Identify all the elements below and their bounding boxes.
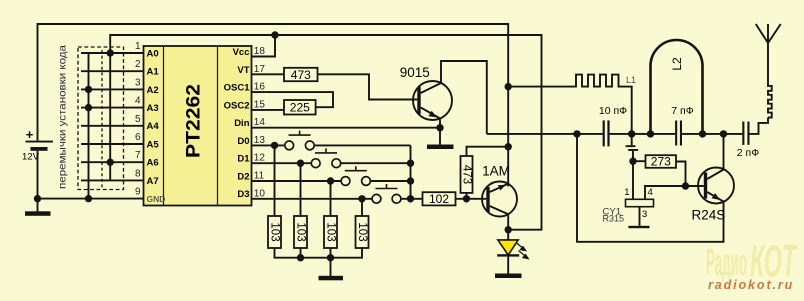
svg-text:473: 473	[460, 165, 472, 184]
svg-text:16: 16	[254, 82, 266, 93]
svg-text:225: 225	[290, 101, 310, 115]
svg-text:8: 8	[135, 168, 141, 179]
svg-text:2: 2	[135, 59, 141, 70]
svg-text:2 пФ: 2 пФ	[737, 147, 759, 159]
svg-text:A3: A3	[147, 103, 159, 114]
svg-text:103: 103	[268, 222, 280, 241]
svg-text:OSC2: OSC2	[224, 100, 250, 111]
svg-text:11: 11	[254, 171, 265, 182]
svg-text:103: 103	[324, 222, 336, 241]
svg-text:A1: A1	[147, 67, 160, 78]
svg-text:PT2262: PT2262	[184, 84, 205, 158]
svg-text:7 пФ: 7 пФ	[671, 105, 693, 117]
svg-text:1: 1	[624, 187, 629, 198]
svg-text:10: 10	[254, 188, 266, 199]
svg-text:9: 9	[135, 187, 141, 198]
svg-text:Din: Din	[234, 118, 250, 129]
svg-text:L1: L1	[626, 75, 636, 85]
svg-text:1: 1	[135, 41, 141, 52]
svg-text:radiokot.ru: radiokot.ru	[708, 278, 794, 292]
svg-text:VT: VT	[237, 65, 249, 76]
svg-text:A5: A5	[147, 139, 160, 150]
svg-text:L2: L2	[670, 57, 684, 71]
svg-text:A6: A6	[147, 158, 159, 169]
svg-text:D2: D2	[237, 171, 249, 182]
svg-text:R24S: R24S	[692, 207, 726, 222]
svg-text:A0: A0	[147, 48, 159, 59]
svg-text:+: +	[26, 127, 34, 142]
svg-text:12: 12	[254, 153, 266, 164]
svg-text:6: 6	[135, 132, 141, 143]
svg-text:3: 3	[135, 77, 141, 88]
svg-text:9015: 9015	[400, 65, 430, 80]
svg-text:A4: A4	[147, 121, 160, 132]
svg-text:4: 4	[648, 187, 653, 198]
svg-text:103: 103	[356, 222, 368, 241]
svg-text:10 пФ: 10 пФ	[599, 105, 627, 117]
svg-text:OSC1: OSC1	[224, 83, 251, 94]
svg-text:3: 3	[642, 209, 647, 220]
svg-text:D3: D3	[237, 189, 249, 200]
svg-text:273: 273	[651, 155, 671, 169]
svg-text:R315: R315	[603, 213, 625, 223]
svg-text:12V: 12V	[22, 152, 40, 163]
svg-text:GND: GND	[147, 194, 166, 204]
svg-text:102: 102	[429, 192, 449, 206]
svg-text:17: 17	[254, 64, 266, 75]
svg-text:Vcc: Vcc	[233, 47, 250, 58]
svg-text:5: 5	[135, 114, 141, 125]
svg-text:15: 15	[254, 99, 266, 110]
svg-text:A7: A7	[147, 176, 159, 187]
svg-text:D0: D0	[237, 136, 249, 147]
svg-text:D1: D1	[237, 154, 250, 165]
svg-text:18: 18	[254, 46, 266, 57]
svg-text:473: 473	[291, 68, 311, 82]
svg-text:103: 103	[294, 222, 306, 241]
svg-text:13: 13	[254, 135, 266, 146]
svg-text:1AM: 1AM	[482, 163, 510, 178]
svg-text:A2: A2	[147, 85, 159, 96]
svg-text:4: 4	[135, 96, 141, 107]
svg-text:7: 7	[135, 150, 141, 161]
svg-text:14: 14	[254, 117, 266, 128]
svg-text:перемычки установки кода: перемычки установки кода	[58, 45, 69, 189]
